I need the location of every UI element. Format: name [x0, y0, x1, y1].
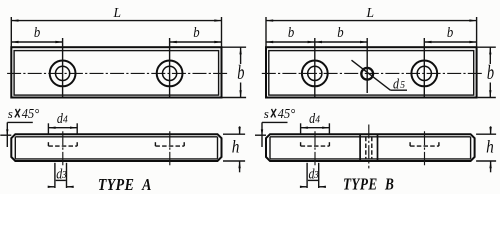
svg-text:TYPE A: TYPE A	[98, 176, 152, 194]
svg-text:d: d	[393, 75, 399, 92]
svg-text:4: 4	[63, 114, 68, 126]
svg-text:45°: 45°	[22, 105, 39, 121]
svg-text:b: b	[337, 25, 343, 41]
svg-text:b: b	[237, 60, 244, 83]
svg-text:L: L	[113, 5, 122, 20]
svg-text:s: s	[264, 106, 269, 121]
svg-text:b: b	[288, 25, 294, 41]
svg-text:b: b	[447, 25, 453, 41]
svg-text:3: 3	[61, 170, 67, 182]
svg-text:45°: 45°	[278, 105, 295, 121]
svg-text:h: h	[486, 136, 494, 156]
svg-text:b: b	[193, 25, 199, 41]
svg-text:b: b	[34, 25, 40, 41]
svg-text:4: 4	[315, 114, 320, 126]
svg-text:s: s	[8, 106, 13, 121]
svg-text:3: 3	[313, 170, 319, 182]
svg-text:b: b	[487, 60, 494, 83]
svg-text:TYPE B: TYPE B	[343, 175, 394, 194]
svg-text:L: L	[366, 5, 375, 20]
svg-text:h: h	[232, 136, 240, 156]
svg-text:5: 5	[400, 80, 405, 92]
